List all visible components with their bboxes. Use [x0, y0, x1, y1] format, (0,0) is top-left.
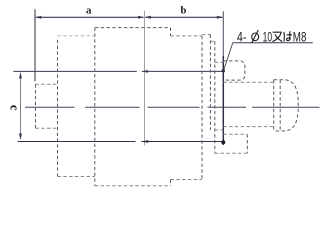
hidden step down at x=170.5 top	[170, 28, 172, 36]
hidden cover left edge x=273.7	[273, 80, 275, 131]
arrowheads dimension a	[35, 16, 145, 19]
hidden small box top y=34.6	[202, 34, 211, 36]
hidden vertical x=214.8	[214, 41, 216, 153]
svg-text:10: 10	[263, 29, 273, 44]
hidden faint top far-left horizontal	[58, 35, 95, 37]
hidden left shaft top y=84.3	[36, 83, 58, 85]
phi symbol	[252, 30, 259, 43]
svg-text:M8: M8	[293, 29, 307, 44]
dimension line a	[36, 16, 144, 18]
extension line at x=35	[34, 9, 36, 81]
hidden cover inner edge x=280.2	[279, 80, 281, 131]
dimension line c	[20, 73, 22, 139]
hidden left vertical x=94.8	[94, 28, 96, 186]
hidden upper tab (rounded)	[223, 61, 245, 80]
dimension line b	[146, 16, 223, 18]
extension line at x=223.3	[222, 11, 224, 56]
svg-text:b: b	[181, 6, 187, 17]
hidden base bottom y=185.8	[95, 185, 171, 187]
hidden cover dome outline	[274, 80, 299, 131]
hidden left shaft end x=35.5	[35, 84, 37, 128]
hidden left shaft bottom y=128.3	[36, 127, 58, 129]
svg-text:4-: 4-	[237, 29, 247, 44]
arrowheads dimension c	[19, 72, 22, 140]
hidden top mid horizontal y=35.9	[171, 35, 203, 37]
hidden shaft boss top line	[223, 81, 273, 83]
hidden step y=41.3	[210, 40, 214, 42]
hidden vertical x=202 long	[201, 36, 203, 180]
junction dot top right hole	[222, 69, 225, 72]
hidden right lower box right x=247.3	[246, 134, 248, 153]
extension line at x=144.5	[144, 11, 146, 146]
hidden step up x=170.5 bottom	[170, 180, 172, 186]
kanji mata	[272, 32, 282, 41]
shaft centerline y=107.3	[25, 106, 320, 108]
junction blob bottom right hole	[221, 140, 225, 144]
kana ha	[284, 31, 292, 41]
hidden right lower small step y=129.9	[215, 129, 224, 131]
svg-text:a: a	[86, 4, 92, 16]
hidden foot bottom y=176.5	[58, 176, 95, 178]
svg-text:c: c	[8, 105, 22, 111]
hidden right lower box bottom y=153.2	[215, 152, 248, 154]
arrow on top centerline	[142, 70, 148, 73]
hidden outline: top left horizontal	[95, 27, 171, 29]
arrow on bottom centerline	[142, 140, 149, 143]
hidden shaft boss bottom line	[223, 126, 273, 128]
leader line	[224, 43, 313, 70]
hidden bottom y=179.5	[171, 179, 203, 181]
hidden right lower box top y=134.2	[223, 133, 247, 135]
hidden vertical x=210.4	[209, 35, 211, 130]
hidden step y=62.5 to body	[215, 61, 224, 63]
hidden left vertical x=57.5	[57, 40, 59, 177]
centerline bottom holes y=141.5	[18, 141, 224, 143]
centerline top holes y=71.4	[13, 70, 223, 72]
arrowheads dimension b	[145, 16, 224, 19]
